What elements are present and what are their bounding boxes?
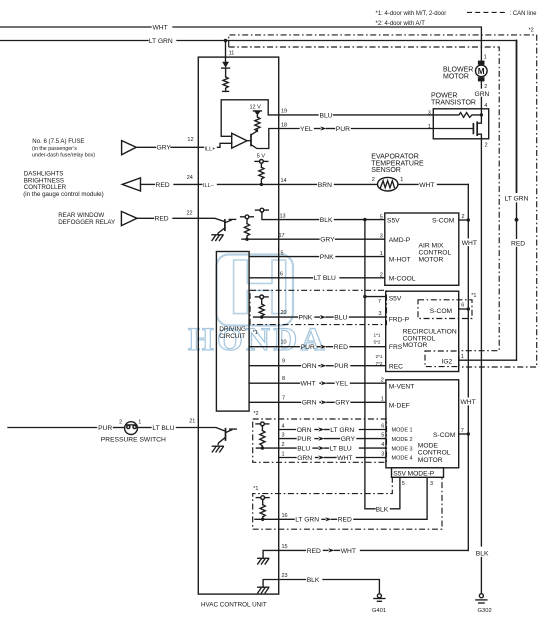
svg-text:RECIRCULATION: RECIRCULATION [403,328,457,335]
dash-dot box S-COM *1 recirc [418,300,472,319]
evaporator temperature sensor TH1 [378,177,398,191]
svg-text:2: 2 [484,84,487,90]
svg-text:17: 17 [279,233,285,239]
wire U1 output to Q1 base [247,140,251,142]
svg-text:4: 4 [282,423,285,429]
svg-text:BLK: BLK [476,551,489,558]
arrow color change 18 [320,126,326,130]
svg-text:CONTROLLER: CONTROLLER [24,184,67,191]
svg-text:WHT: WHT [337,455,352,462]
svg-text:2: 2 [380,272,383,278]
svg-text:: CAN line: : CAN line [510,11,538,17]
svg-text:S5V: S5V [393,471,406,478]
svg-text:PRESSURE SWITCH: PRESSURE SWITCH [101,436,166,443]
arrow color change 7 [321,400,327,404]
svg-text:M-VENT: M-VENT [389,384,415,391]
svg-text:2: 2 [485,143,488,149]
wire pin4 into box [480,109,482,115]
wire fuse GRY to pin12 [136,146,155,148]
svg-text:3: 3 [379,311,382,317]
wire pin23 to chassis ground [263,580,279,588]
svg-text:1: 1 [400,177,403,183]
svg-text:2*1: 2*1 [376,354,383,359]
node power transistor drain [480,113,483,116]
svg-text:LT BLU: LT BLU [152,425,174,432]
svg-text:1: 1 [282,451,285,457]
resistor R5 pin20 pullup [259,304,264,316]
svg-text:9: 9 [282,359,285,365]
arrow color change 1 [318,455,324,459]
svg-text:LT GRN: LT GRN [295,517,319,524]
wire BLK vertical power transistor to G302 [480,139,482,546]
svg-text:8: 8 [282,376,285,382]
svg-text:FRD-P: FRD-P [389,316,410,323]
svg-text:S-COM: S-COM [432,218,455,225]
wire row2 stub [256,447,278,449]
wire switch to LT BLU [137,427,151,429]
svg-text:16: 16 [282,513,288,519]
wire motor to power transistor GRN [480,81,482,88]
transistor Q1 base bar [250,135,252,146]
wire PUR to switch [114,427,125,429]
svg-text:(in the gauge control module): (in the gauge control module) [23,191,104,198]
svg-text:BLK: BLK [307,577,320,584]
5V supply symbol pin16 pullup [261,496,265,500]
node S-COM 7 junction [467,432,470,435]
svg-text:*1: *1 [253,330,258,336]
svg-text:GRY: GRY [320,237,335,244]
op-amp U1 illumination buffer [232,133,247,148]
wire S5V column from pin13 down to mode motor [365,220,375,509]
svg-text:3: 3 [428,111,431,117]
svg-text:M-DEF: M-DEF [389,402,410,409]
wire S-COM air mix to WHT vertical [459,219,469,221]
arrow color change 3 [318,437,324,441]
svg-text:BLK: BLK [376,506,389,513]
ground chassis pin15 [258,557,269,559]
svg-text:PNK: PNK [299,315,313,322]
svg-text:1: 1 [461,354,464,360]
svg-text:3: 3 [282,432,285,438]
resistor R4 pin17 pullup [244,224,249,239]
svg-text:2: 2 [282,442,285,448]
wire diode to resistor [225,68,227,77]
wire pin15 to chassis ground [263,550,279,558]
wire ILL- row inside box [198,183,202,185]
svg-text:RED: RED [307,548,321,555]
svg-text:HONDA: HONDA [188,322,328,358]
node S-COM 6 junction [467,307,470,310]
svg-text:G401: G401 [372,608,386,614]
svg-text:MODE 1: MODE 1 [392,428,413,434]
svg-text:*1: 4-door with M/T, 2-door: *1: 4-door with M/T, 2-door [376,11,447,17]
svg-text:1: 1 [138,419,141,425]
svg-text:6: 6 [461,303,464,309]
svg-text:S5V: S5V [387,218,400,225]
blower motor connector bottom [478,77,485,81]
svg-text:LT GRN: LT GRN [149,38,173,45]
svg-text:4: 4 [381,442,384,448]
node S-COM 2 junction [467,218,470,221]
svg-text:(in the passenger’s: (in the passenger’s [32,146,77,152]
node ILL- junction [260,183,263,186]
arrow color change 9 [320,364,326,368]
fuse No.6 connector triangle [122,141,137,155]
svg-text:M-HOT: M-HOT [389,257,411,264]
svg-text:BLU: BLU [334,315,347,322]
svg-text:GRN: GRN [302,400,317,407]
arrow color change 16 [325,517,331,521]
svg-text:WHT: WHT [341,548,356,555]
svg-text:24: 24 [187,175,193,181]
wire LT GRN top horizontal [0,40,148,42]
svg-text:7: 7 [378,299,381,305]
svg-text:12 V: 12 V [250,104,262,110]
wire pin16 stub [255,518,279,520]
pressure switch PS1 [125,422,138,435]
svg-text:MODE 3: MODE 3 [392,446,413,452]
svg-text:CONTROL: CONTROL [418,450,451,457]
svg-text:under-dash fuse/relay box): under-dash fuse/relay box) [32,153,95,159]
svg-text:WHT: WHT [462,240,477,247]
resistor R7 pin16 pullup [260,505,265,519]
svg-text:1: 1 [484,55,487,61]
svg-text:MOTOR: MOTOR [443,74,469,81]
HVAC control unit box [198,57,278,594]
wire S-COM 7 to WHT vertical [459,433,469,435]
svg-text:GRY: GRY [335,400,350,407]
svg-text:*1: *1 [471,293,476,299]
svg-text:LT BLU: LT BLU [314,275,336,282]
svg-text:3: 3 [380,234,383,240]
svg-text:*1: *1 [253,486,258,492]
svg-text:MODE 4: MODE 4 [392,456,413,462]
svg-text:PUR: PUR [98,425,112,432]
power transistor box [433,109,488,139]
wire ILL+ input [198,146,203,148]
resistor R2 collector load [255,117,260,131]
svg-text:6: 6 [280,272,283,278]
recirculation control motor box [386,291,459,371]
brightness controller connector triangle [122,178,140,191]
illumination driver feedback wire to pin 19 [221,100,279,137]
defogger relay connector triangle [121,211,137,225]
wire IG2 pin1 to RED vertical [459,359,517,361]
wire defogger RED to pin22 [137,217,154,219]
arrow color change 20 [320,315,326,319]
resistor R8 inside power transistor [433,113,481,118]
svg-text:10: 10 [281,340,287,346]
transistor Q2 rear defogger input [198,218,223,221]
svg-text:MODE: MODE [418,442,439,449]
ground G401 [377,594,381,598]
wire end tick [223,90,229,92]
wire LT GRN / RED vertical [516,41,518,193]
svg-text:FRS: FRS [389,344,403,351]
arrow color change 2 [318,446,324,450]
svg-text:20: 20 [281,310,287,316]
svg-text:CIRCUIT: CIRCUIT [219,333,245,340]
svg-text:PUR: PUR [336,126,350,133]
svg-text:BLK: BLK [320,217,333,224]
svg-text:1*1: 1*1 [374,332,381,337]
svg-text:15: 15 [282,544,288,550]
dash-dot box *2 around mode rows pullup [253,419,387,462]
dash-dot open box *1 bottom around pin16 pullup [253,477,442,529]
svg-text:G302: G302 [478,608,492,614]
svg-text:1: 1 [381,397,384,403]
svg-text:MOTOR: MOTOR [418,457,443,464]
svg-text:PUR: PUR [297,436,311,443]
wire pin17 row inside [242,238,279,240]
svg-text:WHT: WHT [461,399,476,406]
svg-text:*2: 4-door with A/T: *2: 4-door with A/T [376,21,426,27]
svg-text:3: 3 [381,452,384,458]
svg-text:LT BLU: LT BLU [330,446,352,453]
svg-text:DRIVING: DRIVING [219,326,246,333]
svg-text:MOTOR: MOTOR [419,257,444,264]
svg-text:YEL: YEL [335,381,348,388]
5V supply symbol pin17 pullup [245,215,249,219]
resistor R6 mode pullup [260,431,265,448]
svg-text:WHT: WHT [153,24,168,31]
dash-dot box IG2 [425,351,459,367]
wire WHT vertical net [467,184,469,237]
svg-text:2: 2 [381,377,384,383]
CAN line *2 outer dash-dot [229,35,537,367]
svg-text:2: 2 [372,177,375,183]
svg-text:WHT: WHT [419,182,434,189]
5V supply symbol mode pullup [261,422,265,426]
wire pin 11 drop [225,41,227,62]
transistor Q1 collector [251,130,257,135]
ground chassis Q2 emitter [212,234,223,236]
svg-text:MOTOR: MOTOR [403,342,428,349]
ground G302 [479,594,483,598]
svg-text:5: 5 [402,481,405,487]
transistor Q3 pressure switch input [198,428,224,431]
ground chassis pin23 [258,586,269,588]
svg-text:19: 19 [281,109,287,115]
svg-text:ILL+: ILL+ [205,146,216,152]
svg-text:7*2: 7*2 [376,361,383,366]
resistor R3 ILL- pullup [259,167,264,183]
svg-text:RED: RED [338,517,352,524]
svg-text:REC: REC [389,364,403,371]
svg-text:2: 2 [119,419,122,425]
svg-text:22: 22 [187,210,193,216]
svg-text:S-COM: S-COM [433,432,456,439]
svg-text:*2: *2 [529,28,534,34]
svg-text:HVAC CONTROL UNIT: HVAC CONTROL UNIT [201,602,267,609]
svg-text:5: 5 [281,250,284,256]
dash-dot box *1 around pin20 pullup [250,290,387,324]
svg-text:3: 3 [430,481,433,487]
wire LT BLU to pin21 [177,427,199,429]
wire WHT top horizontal [0,26,151,28]
resistor R1 pin11 chain [223,77,228,92]
wire brightness RED to pin24 [141,183,155,185]
driving circuit box [216,252,249,412]
S5V MODE-P sub-box [392,468,444,478]
svg-text:6: 6 [381,424,384,430]
node LT GRN / pin 11 junction [224,39,228,43]
svg-text:M: M [478,67,485,76]
svg-text:CONTROL: CONTROL [419,250,452,257]
watermark Honda badge [217,255,294,326]
svg-text:S-COM: S-COM [430,308,453,315]
svg-text:DEFOGGER RELAY: DEFOGGER RELAY [58,219,115,226]
node S5V recirc junction [363,295,366,298]
svg-text:RED: RED [155,216,169,223]
svg-text:ORN: ORN [297,427,312,434]
svg-text:13: 13 [280,213,286,219]
wire S-COM 6 to WHT vertical [459,308,469,310]
svg-text:LT GRN: LT GRN [330,427,354,434]
svg-text:1: 1 [428,124,431,130]
svg-text:MODE 2: MODE 2 [392,437,413,443]
svg-text:7: 7 [282,395,285,401]
wire pressure switch line left [8,427,97,429]
air mix control motor box [385,213,459,285]
svg-text:AMD-P: AMD-P [389,237,411,244]
svg-text:ILL−: ILL− [203,183,214,189]
svg-text:18: 18 [281,122,287,128]
svg-text:BRN: BRN [318,182,332,189]
svg-text:5: 5 [381,433,384,439]
node pin20 junction [260,315,263,318]
svg-text:5: 5 [380,214,383,220]
svg-text:IG2: IG2 [442,359,453,366]
svg-text:SENSOR: SENSOR [371,167,401,174]
svg-text:PUR: PUR [301,344,315,351]
svg-text:14: 14 [281,178,287,184]
svg-text:AIR MIX: AIR MIX [419,243,444,250]
svg-text:LT GRN: LT GRN [505,196,529,203]
blower motor connector top [478,61,485,65]
node pin16 junction [261,518,264,521]
transistor Q1 emitter to pin 18 [251,129,279,149]
arrow color change 8 [321,381,327,385]
svg-text:BLU: BLU [320,112,333,119]
node mode row2 junction [261,446,264,449]
mode control motor box [386,380,459,468]
svg-text:RED: RED [334,344,348,351]
CAN line *1 inner dash-dot [229,47,500,351]
ground chassis Q3 emitter [212,445,223,447]
svg-text:5*2: 5*2 [374,339,381,344]
svg-text:GRY: GRY [157,145,172,152]
svg-text:PUR: PUR [334,363,348,370]
svg-text:TRANSISTOR: TRANSISTOR [431,100,476,107]
svg-text:REAR WINDOW: REAR WINDOW [58,212,104,219]
wire pin20 stub [254,316,279,318]
5V supply symbol pin13 [260,208,264,212]
svg-text:4: 4 [484,103,487,109]
svg-text:1: 1 [380,251,383,257]
svg-text:21: 21 [189,418,195,424]
node color change LT GRN RED [515,218,519,222]
wire S5V junction to recirc box [365,296,386,298]
svg-text:GRN: GRN [297,455,312,462]
svg-text:S5V: S5V [389,295,402,302]
svg-text:12: 12 [187,137,193,143]
svg-text:YEL: YEL [300,126,313,133]
svg-text:BLU: BLU [297,446,310,453]
arrow color change 4 [318,427,324,431]
svg-text:PNK: PNK [320,254,334,261]
svg-text:No. 6 (7.5 A) FUSE: No. 6 (7.5 A) FUSE [32,138,84,145]
svg-text:RED: RED [156,182,170,189]
node row13 S5V junction [363,218,366,221]
svg-text:2: 2 [462,214,465,220]
node pin17 junction [245,238,248,241]
svg-text:M-COOL: M-COOL [389,276,416,283]
wire sensor to WHT vertical [398,183,418,185]
wire 5V to pin13 row [262,212,279,220]
svg-text:11: 11 [229,50,235,56]
svg-text:7: 7 [461,428,464,434]
transistor Q4 MOSFET [433,128,473,130]
arrow color change 10 [320,345,326,349]
svg-text:5 V: 5 V [257,154,266,160]
arrow color change 15 [328,548,334,552]
svg-text:WHT: WHT [301,381,316,388]
svg-text:MODE-P: MODE-P [408,471,435,478]
diode D1 in pin11 chain [222,62,229,68]
5V supply symbol pin20 pullup [260,295,264,299]
legend CAN line sample [467,11,507,13]
svg-text:*2: *2 [253,411,258,417]
svg-text:ORN: ORN [302,363,317,370]
svg-text:GRY: GRY [341,436,356,443]
blower motor M1 [476,65,488,77]
svg-text:23: 23 [282,573,288,579]
svg-text:RED: RED [511,241,525,248]
